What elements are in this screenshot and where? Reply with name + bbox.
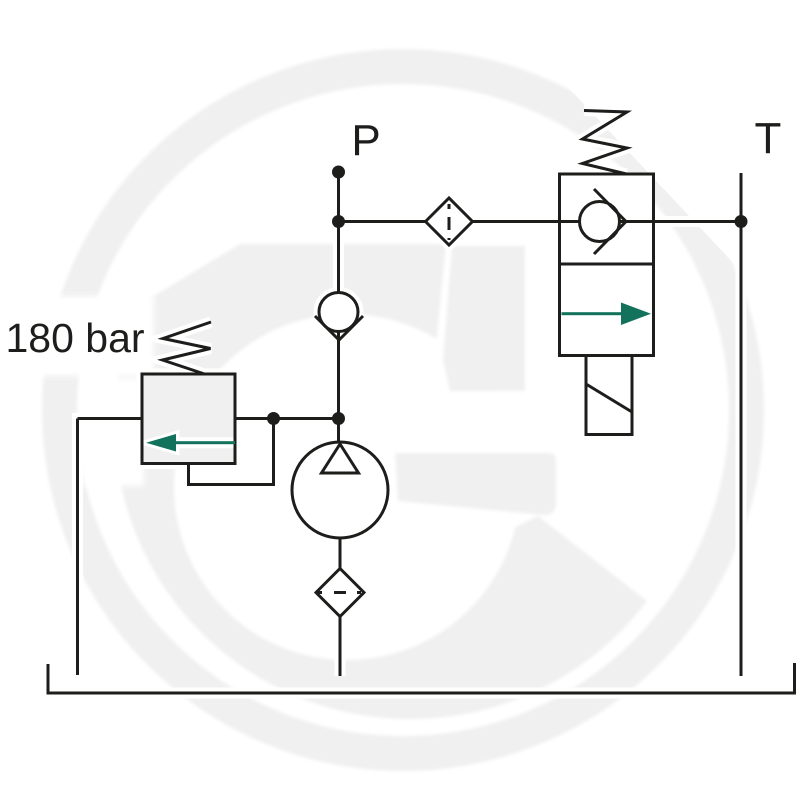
wire halos	[48, 111, 795, 694]
halo left of relief valve	[84, 378, 144, 486]
valve U1 block	[560, 174, 654, 356]
wire drain to tank	[76, 419, 79, 676]
svg-text:T: T	[755, 114, 782, 163]
green arrow A1 in valve U1	[146, 303, 651, 452]
pump M1	[292, 442, 388, 538]
junction dot P-branch	[332, 215, 345, 228]
tank	[48, 663, 795, 693]
junction dot relief-pump	[332, 412, 345, 425]
watermark slash cut	[532, 42, 800, 355]
wire relief valve left	[78, 417, 143, 420]
wire P vertical	[337, 172, 340, 442]
solenoid Y1	[586, 356, 632, 435]
watermark G bar	[395, 453, 556, 515]
watermark G slot	[428, 397, 712, 453]
halo for 180 bar text	[0, 296, 154, 376]
watermark keyline ring	[60, 67, 747, 754]
green arrow A2 in relief valve	[176, 441, 235, 444]
svg-text:180 bar: 180 bar	[6, 315, 145, 361]
filter F1 pressure filter diamond	[426, 198, 473, 245]
spring S2 on relief valve	[163, 322, 212, 374]
watermark G counter	[174, 314, 520, 660]
relief valve RV1 block	[142, 374, 235, 464]
wire filter to tank	[339, 617, 342, 677]
junction dot relief-pilot	[267, 412, 280, 425]
node P dot	[332, 166, 345, 179]
filter F2 suction strainer diamond	[316, 569, 364, 617]
wire pilot loop	[189, 419, 274, 485]
check valve V1 on P line	[319, 293, 358, 332]
wire relief valve right	[235, 417, 339, 420]
relief valve interior fill	[144, 376, 234, 463]
wire pump to filter	[339, 538, 342, 568]
junction dot T	[735, 215, 748, 228]
watermark G spur	[443, 246, 525, 391]
wire main horizontal P to T	[339, 220, 742, 223]
wire T vertical	[740, 173, 743, 676]
halo for relief arrow	[148, 435, 236, 452]
watermark G body	[114, 244, 647, 719]
spring S1 on valve U1	[583, 111, 628, 175]
node dots	[267, 166, 748, 426]
svg-text:P: P	[351, 116, 380, 165]
valve U1 check valve	[560, 220, 654, 223]
watermark G logo	[60, 67, 747, 754]
